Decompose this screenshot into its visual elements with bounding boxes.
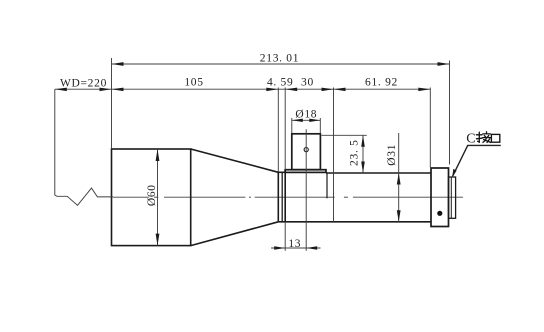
svg-text:4. 59: 4. 59 xyxy=(267,77,294,89)
cone end face xyxy=(277,172,279,222)
arrows on Ø60 xyxy=(156,149,160,161)
13 dimension line xyxy=(271,247,321,249)
23.5 dimension line xyxy=(362,135,364,173)
extension line x=285.2 (mid-section start) xyxy=(284,88,286,170)
spacer ring top edge (4.59 section) xyxy=(278,171,285,173)
mid-section left face xyxy=(284,170,286,222)
arrows on Ø31 xyxy=(397,173,401,185)
C-mount thread disc xyxy=(449,177,456,218)
common bottom edge of tube and mid-section xyxy=(278,221,431,223)
svg-text:30: 30 xyxy=(301,77,314,89)
extension line at lens front face x=111.5 xyxy=(111,58,113,149)
glyph 接 (hand radical) xyxy=(476,132,482,142)
flange screw hole (filled dot) xyxy=(437,211,442,216)
C-mount flange body xyxy=(431,168,449,227)
svg-text:Ø31: Ø31 xyxy=(386,144,398,166)
arrows on 61.92 xyxy=(334,88,346,92)
svg-text:105: 105 xyxy=(184,77,203,89)
knob box (Ø18 housing) xyxy=(292,134,321,170)
glyph 接 (right part 妾) xyxy=(483,132,491,143)
arrows on 30 xyxy=(285,88,297,92)
extension line x=278.3 (cone end) xyxy=(277,88,279,172)
main tube top edge (Ø31) xyxy=(326,172,431,174)
arrows on 13 (outside) xyxy=(274,246,285,249)
svg-text:23. 5: 23. 5 xyxy=(349,139,361,166)
front barrel (big rectangle, Ø60) xyxy=(112,149,191,246)
mid-section inner step vertical xyxy=(326,172,328,198)
thread disc inner line xyxy=(450,177,452,218)
arrows on 23.5 xyxy=(361,135,365,147)
arrows on WD=220 xyxy=(55,88,67,92)
svg-text:WD=220: WD=220 xyxy=(60,77,107,89)
arrow on C接口 leader xyxy=(452,169,456,178)
Ø18 dimension line xyxy=(292,119,321,121)
svg-text:Ø18: Ø18 xyxy=(295,109,317,121)
extension line x=333.5 (30/61.92 boundary) xyxy=(333,88,335,222)
set-screw circle in knob box xyxy=(304,148,308,152)
arrows on 213.01 xyxy=(112,62,124,66)
glyph 口 xyxy=(491,134,499,142)
chained dimension line (WD/105/4.59/30/61.92) xyxy=(55,88,431,90)
hand-drawn 接口 glyphs xyxy=(476,132,499,143)
svg-text:C: C xyxy=(466,131,476,146)
svg-text:61. 92: 61. 92 xyxy=(365,77,398,89)
svg-text:213. 01: 213. 01 xyxy=(260,52,299,64)
cone taper bottom edge xyxy=(191,222,279,246)
Ø18 right extension xyxy=(319,118,321,133)
213.01 dimension line xyxy=(112,63,450,65)
WD object-plane line with break zigzag xyxy=(55,89,113,205)
arrows on 105 xyxy=(112,88,124,92)
extension line x=430.3 (flange front) xyxy=(429,88,431,168)
Ø18 left extension xyxy=(291,118,293,133)
centerline (lens optical axis, dash-dot) xyxy=(113,196,463,198)
13-dim left extension below part xyxy=(284,222,286,251)
knob centre line down to 13-dim xyxy=(305,129,307,251)
spacer ring inner edge xyxy=(281,172,283,222)
flange plate under knob box xyxy=(285,170,326,173)
23.5 top reference extension xyxy=(322,134,367,136)
arrows on Ø18 xyxy=(292,119,303,122)
Ø60 dimension line xyxy=(157,149,159,246)
Ø31 dimension line xyxy=(398,133,400,222)
extension line at flange rear x=449.5 xyxy=(449,61,451,165)
svg-text:Ø60: Ø60 xyxy=(146,184,158,206)
cone taper top edge xyxy=(191,149,279,172)
svg-text:13: 13 xyxy=(288,238,301,250)
C接口 leader line xyxy=(453,145,501,176)
